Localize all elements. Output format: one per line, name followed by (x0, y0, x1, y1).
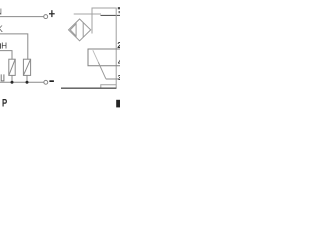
svg-text:2: 2 (117, 40, 120, 50)
svg-text:4: 4 (118, 57, 120, 66)
svg-text:3: 3 (118, 73, 120, 82)
svg-text:H: H (1, 42, 7, 51)
svg-text:P: P (2, 97, 7, 109)
svg-text:N: N (0, 7, 2, 16)
svg-text:K: K (0, 24, 3, 34)
